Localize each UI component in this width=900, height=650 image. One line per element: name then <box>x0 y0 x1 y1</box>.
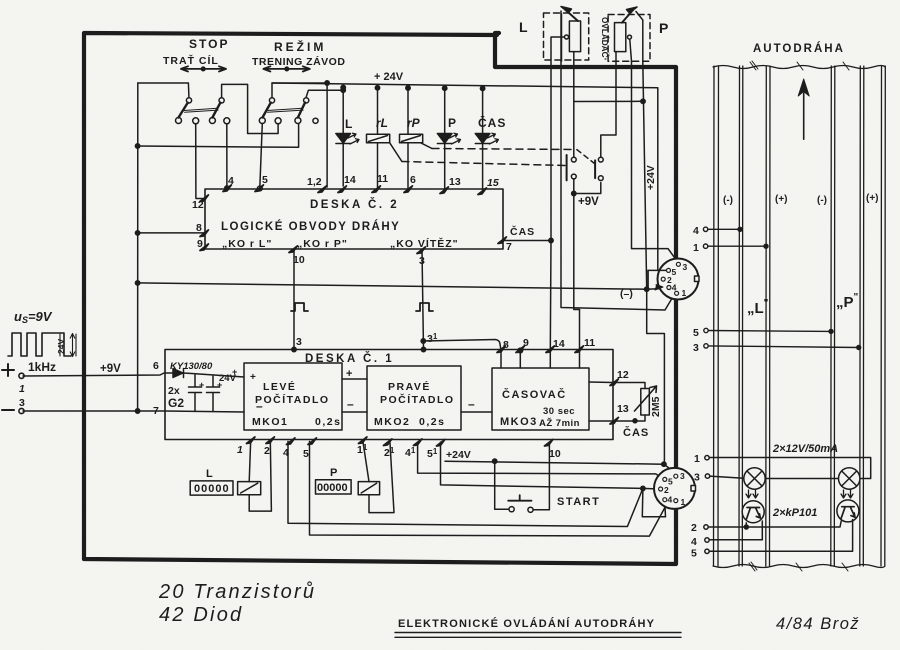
wire: DESKA2 pin10 down to DESKA1 pin3 <box>293 249 295 350</box>
svg-text:TRENING ZÁVOD: TRENING ZÁVOD <box>252 55 345 68</box>
svg-text:5: 5 <box>303 448 309 460</box>
node: bus tap relay rL <box>375 86 379 90</box>
svg-text:21: 21 <box>384 446 395 459</box>
svg-text:1: 1 <box>681 497 686 507</box>
svg-text:00000: 00000 <box>194 483 230 495</box>
light arrows L <box>746 490 758 498</box>
rail L minus <box>739 66 743 566</box>
svg-text:5: 5 <box>672 267 677 277</box>
svg-text:REŽIM: REŽIM <box>274 39 326 54</box>
pulse symbol pin10 <box>291 303 308 311</box>
wire: bus to STOP switch pivot1 <box>138 83 189 97</box>
box PRAVE POCITADLO <box>367 366 461 430</box>
wire: 0V from source minus to DESKA1 pin7 <box>23 410 165 412</box>
switch S1 STOP-a <box>186 98 191 103</box>
pin arrows DESKA1 right <box>610 379 618 424</box>
label PRAVE POCITADLO <box>374 380 455 428</box>
pin labels DESKA2 top <box>192 173 535 267</box>
wire: pin4 long to connector2 area <box>288 441 643 526</box>
svg-text:+9V: +9V <box>100 363 121 375</box>
board DESKA C.2 <box>205 189 503 249</box>
wire: pin9 stub <box>519 351 521 369</box>
svg-text:12: 12 <box>617 369 629 381</box>
svg-text:3: 3 <box>693 342 699 354</box>
svg-text:rL: rL <box>376 116 388 130</box>
diode KY130/80 <box>165 369 244 378</box>
svg-text:1: 1 <box>19 383 25 395</box>
terminal minus <box>2 409 14 411</box>
svg-text:(–): (–) <box>620 288 633 300</box>
phototransistor L <box>742 501 764 523</box>
svg-text:ELEKTRONICKÉ OVLÁDÁNÍ AUTODR: ELEKTRONICKÉ OVLÁDÁNÍ AUTODRÁHY <box>398 617 655 630</box>
24V box on waveform <box>60 334 76 357</box>
wire: minus to pin5 bracket <box>648 270 666 290</box>
controller P dashed box <box>608 15 650 62</box>
svg-text:3: 3 <box>19 397 25 409</box>
switch S3 REZIM-a <box>272 83 327 187</box>
square wave <box>8 333 71 356</box>
wire: PRAVE to CASOVAC minus <box>461 411 492 413</box>
selector arrow REZIM <box>263 66 309 71</box>
svg-text:2×12V/50mA: 2×12V/50mA <box>772 443 838 455</box>
svg-text:10: 10 <box>293 254 305 266</box>
svg-text:7: 7 <box>153 405 159 417</box>
svg-text:3: 3 <box>683 262 688 272</box>
node: bus junction y283 <box>135 281 139 285</box>
svg-text:AUTODRÁHA: AUTODRÁHA <box>753 42 845 55</box>
wire: right contact top to controller P lead1 <box>601 12 643 158</box>
svg-text:ČAS: ČAS <box>623 426 649 439</box>
relay rL <box>367 88 390 188</box>
wire: left vertical bus <box>137 83 139 411</box>
lamp P <box>839 468 860 489</box>
connector DIN 2 <box>654 468 696 509</box>
svg-text:MKO2: MKO2 <box>374 416 410 428</box>
svg-text:TRAŤ CÍL: TRAŤ CÍL <box>163 54 219 67</box>
label STOP <box>163 37 345 68</box>
svg-text:2: 2 <box>691 522 697 534</box>
node: bus junction y233 <box>135 231 139 235</box>
svg-text:(-): (-) <box>723 195 733 206</box>
wire: pin4' to connector2 pin5 <box>418 442 663 478</box>
light arrows P <box>841 490 853 498</box>
coupling bar S3-S4 <box>267 108 303 112</box>
direction arrow <box>798 79 809 139</box>
arrowhead on minus wire <box>655 285 663 291</box>
svg-text:1,2: 1,2 <box>307 176 322 188</box>
wire: U detour to connector2 pin4 <box>642 488 665 516</box>
wire: pin8 into casovac <box>500 351 502 369</box>
controller L dashed box <box>544 13 589 60</box>
svg-text:11: 11 <box>377 173 388 185</box>
svg-text:ČAS: ČAS <box>510 225 535 238</box>
svg-text:„P": „P" <box>836 292 859 311</box>
wire: pin5 long to connector pin1 <box>310 441 669 536</box>
svg-text:KY130/80: KY130/80 <box>170 361 213 372</box>
capacitor C2 <box>207 376 220 411</box>
svg-text:+24V: +24V <box>645 165 657 190</box>
svg-text:uS=9V: uS=9V <box>14 309 53 325</box>
svg-text:5: 5 <box>691 548 697 560</box>
LED CAS <box>475 88 490 190</box>
dashed actuator diagonal <box>577 150 595 164</box>
wire: controller P lead 3 (+24V tap) to minus line <box>643 61 665 464</box>
svg-text:1kHz: 1kHz <box>28 360 56 374</box>
node: bus tap LED P <box>443 86 447 90</box>
svg-text:13: 13 <box>449 176 461 188</box>
svg-text:20 Tranzistorů: 20 Tranzistorů <box>158 581 316 603</box>
svg-text:PRAVÉ: PRAVÉ <box>388 380 431 393</box>
svg-text:6: 6 <box>410 174 416 186</box>
svg-text:15: 15 <box>487 177 499 189</box>
wire: controller L lead 1 down to pin14 line <box>551 14 564 241</box>
svg-text:1: 1 <box>693 242 699 254</box>
relay P box <box>358 482 379 495</box>
svg-text:2: 2 <box>664 485 669 495</box>
label 2x G2 <box>153 360 475 417</box>
rail P minus <box>831 66 835 566</box>
capacitor C1 <box>189 375 202 411</box>
svg-text:L: L <box>519 19 528 35</box>
wire: controller L lead 3 via contact <box>573 52 575 157</box>
svg-text:5: 5 <box>693 327 699 339</box>
svg-text:–: – <box>347 397 354 411</box>
wire: +9V from source to DESKA1 pin6 <box>23 373 164 376</box>
svg-text:„KO r P": „KO r P" <box>297 238 348 250</box>
wire: LEVE to PRAVE minus <box>342 411 367 413</box>
svg-text:LEVÉ: LEVÉ <box>263 380 296 393</box>
label (-) lane L <box>723 193 879 206</box>
svg-text:1: 1 <box>694 453 700 465</box>
svg-text:ČASOVAČ: ČASOVAČ <box>502 388 567 401</box>
wire: pin11 into casovac <box>579 310 581 369</box>
pulse symbol pin3 <box>416 303 433 311</box>
svg-text:30 sec: 30 sec <box>543 406 575 417</box>
svg-text:rP: rP <box>407 116 421 130</box>
lamps and sensors <box>691 453 871 560</box>
counter L box <box>190 481 233 495</box>
wire: right contact bottom to +9V node <box>574 183 601 194</box>
svg-text:11: 11 <box>357 443 368 456</box>
node: bus tap relay rP <box>406 86 410 90</box>
svg-text:41: 41 <box>405 446 416 459</box>
pin labels DESKA1 top <box>296 332 595 351</box>
svg-text:4: 4 <box>691 536 697 548</box>
relay contact right <box>594 160 596 178</box>
svg-text:3: 3 <box>296 336 302 348</box>
svg-text:START: START <box>557 496 600 508</box>
coupling bar S1-S2 <box>184 108 218 112</box>
wire: pin1' through relay P coil <box>363 441 394 513</box>
svg-text:L: L <box>345 117 352 131</box>
terminal plus <box>2 364 14 376</box>
svg-text:ČAS: ČAS <box>478 115 506 130</box>
wire: pin5' to connector2 pin2 <box>441 442 659 489</box>
svg-text:+: + <box>217 380 222 390</box>
svg-text:8: 8 <box>196 222 202 234</box>
svg-text:DESKA Č. 2: DESKA Č. 2 <box>310 198 399 211</box>
dashed link from rL <box>390 143 402 162</box>
controller L wiper <box>565 10 578 22</box>
wire: pin14 into casovac <box>549 241 552 369</box>
counter P box <box>316 480 352 494</box>
svg-text:4/84 Brož: 4/84 Brož <box>776 615 860 633</box>
svg-text:14: 14 <box>344 174 356 186</box>
wire: REZIM wire y146 to switch arm4 <box>138 124 299 147</box>
wire: +24V bottom horizontal <box>445 461 674 471</box>
svg-text:7: 7 <box>506 241 512 253</box>
svg-text:0,2s: 0,2s <box>315 416 341 428</box>
svg-text:OVLÁDAČ“: OVLÁDAČ“ <box>600 17 611 60</box>
wire: S3 arm to pin5 <box>260 124 263 188</box>
track right border <box>881 66 885 566</box>
connector DIN 1 <box>658 259 700 300</box>
svg-text:0,2s: 0,2s <box>419 416 445 428</box>
svg-text:+: + <box>346 368 352 380</box>
rail P plus <box>860 66 864 566</box>
wire: S1 contact to pin12 <box>196 124 203 199</box>
svg-text:4: 4 <box>672 283 677 293</box>
wire: CAS pin7 to CASOVAC pin14 feed <box>503 240 551 242</box>
svg-text:(-): (-) <box>817 195 827 206</box>
svg-text:LOGICKÉ OBVODY DRÁHY: LOGICKÉ OBVODY DRÁHY <box>221 220 400 233</box>
svg-text:MKO1: MKO1 <box>252 416 288 428</box>
switch S2 STOP-b <box>222 84 279 133</box>
svg-text:1: 1 <box>237 444 243 456</box>
LED L <box>336 88 351 187</box>
dashed link from rP <box>421 143 432 149</box>
signal source Us <box>2 333 76 414</box>
svg-text:+: + <box>199 380 204 390</box>
node: bus tap LED L <box>341 85 345 89</box>
svg-text:42 Diod: 42 Diod <box>159 604 243 626</box>
wire: y101 link <box>574 100 643 102</box>
switch START <box>495 461 509 509</box>
track top edge <box>713 66 885 69</box>
svg-text:(+): (+) <box>775 194 788 205</box>
label CASOVAC <box>500 388 580 429</box>
svg-text:5: 5 <box>668 476 673 486</box>
wire between lamps <box>765 478 838 480</box>
box CASOVAC <box>492 368 589 430</box>
svg-text:3: 3 <box>680 471 685 481</box>
main board frame <box>84 33 676 564</box>
svg-text:+: + <box>250 372 256 383</box>
svg-text:14: 14 <box>553 338 565 350</box>
svg-text:G2: G2 <box>168 396 184 410</box>
svg-text:6: 6 <box>153 360 159 372</box>
wire: casovac pin13 <box>589 420 613 422</box>
svg-text:–: – <box>468 397 475 411</box>
svg-text:P: P <box>330 467 337 479</box>
lamp L <box>744 468 765 489</box>
svg-text:4: 4 <box>668 495 673 505</box>
controller L rheostat <box>569 21 580 52</box>
svg-text:P: P <box>659 20 668 36</box>
wire: S2 contact to pin4 <box>226 124 228 188</box>
svg-text:„KO r L": „KO r L" <box>222 238 272 250</box>
paper noise overlay <box>0 0 1 1</box>
wire: pins 8/9 feed <box>138 232 204 234</box>
switch S4 REZIM-b <box>306 90 343 97</box>
svg-text:2M5: 2M5 <box>650 396 662 417</box>
svg-text:2×kP101: 2×kP101 <box>772 507 817 519</box>
svg-text:+9V: +9V <box>578 196 599 208</box>
svg-text:2: 2 <box>264 445 270 457</box>
svg-text:+ 24V: + 24V <box>374 71 404 83</box>
selector arrow STOP <box>181 66 226 71</box>
rail L plus <box>766 66 770 566</box>
pin arrows DESKA1 bottom <box>247 437 553 446</box>
LED P <box>437 88 452 190</box>
box LEVE POCITADLO <box>244 363 342 430</box>
svg-text:31: 31 <box>427 332 438 345</box>
wire: minus bus to connector pin4 <box>138 283 663 289</box>
track terminal 4 <box>693 225 861 354</box>
svg-text:13: 13 <box>617 403 629 415</box>
node: junction 0V bus <box>135 409 139 413</box>
svg-text:P: P <box>448 116 456 130</box>
relay contact left <box>566 155 568 180</box>
wire: 0V rail inside DESKA1 <box>165 411 244 412</box>
svg-text:1: 1 <box>682 288 687 298</box>
label L LED <box>345 115 506 131</box>
relay rP <box>400 88 423 188</box>
svg-text:(+): (+) <box>866 193 879 204</box>
svg-text:3: 3 <box>694 472 700 484</box>
svg-text:11: 11 <box>584 337 595 349</box>
potentiometer 2M5 <box>614 383 646 389</box>
wire: DESKA2 pin3 down to DESKA1 pin3' <box>422 250 424 350</box>
track left border <box>714 66 719 566</box>
controller P wiper <box>622 10 633 23</box>
wire: +24V top bus <box>272 83 658 289</box>
label LEVE POCITADLO <box>252 380 341 428</box>
wire: controller P lead 2 to connector1 <box>632 61 678 261</box>
pot arrow <box>635 386 657 411</box>
pin arrows DESKA2 <box>200 185 506 254</box>
wire: casovac pin12 to DESKA1 edge <box>589 381 613 384</box>
phototransistor P <box>837 500 859 522</box>
controllers section <box>544 7 651 62</box>
svg-text:AŽ 7min: AŽ 7min <box>539 417 580 429</box>
svg-text:POČÍTADLO: POČÍTADLO <box>380 393 455 406</box>
board DESKA C.1 <box>165 350 613 440</box>
svg-text:L: L <box>206 468 213 480</box>
svg-text:4: 4 <box>693 225 699 237</box>
svg-text:00000: 00000 <box>317 482 348 494</box>
svg-text:STOP: STOP <box>189 37 229 51</box>
svg-text:POČÍTADLO: POČÍTADLO <box>255 393 330 406</box>
wire: pin1 through relay L coil <box>249 440 271 511</box>
svg-text:10: 10 <box>549 448 561 460</box>
svg-text:24V: 24V <box>56 339 66 354</box>
node: bus junction y146 <box>135 144 139 148</box>
pin arrows DESKA1 top <box>497 346 583 353</box>
node: bus tap LED CAS <box>480 86 484 90</box>
svg-text:+24V: +24V <box>446 449 471 461</box>
svg-text:MKO3: MKO3 <box>500 416 538 428</box>
wire: LEVE to PRAVE plus <box>342 378 367 380</box>
pin labels DESKA1 bottom <box>237 443 561 461</box>
svg-text:51: 51 <box>427 447 438 460</box>
relay L box <box>238 482 261 495</box>
track bottom edge <box>713 565 885 568</box>
svg-text:+: + <box>232 367 237 377</box>
label DESKA C.2 <box>221 198 459 250</box>
wire: pin 3' to CASOVAC pin 8 <box>423 340 501 351</box>
controller P rheostat <box>615 23 626 52</box>
wire: controller L lead 2 down to y307 <box>561 11 673 310</box>
